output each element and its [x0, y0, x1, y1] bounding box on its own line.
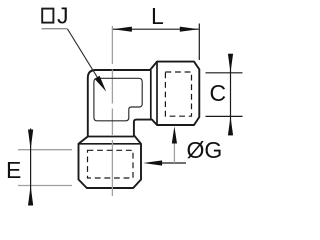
svg-text:C: C [210, 80, 227, 106]
L dimension line [113, 28, 199, 30]
E bottom extension line [18, 185, 72, 187]
L right arrow [180, 27, 199, 32]
J leader arrowhead [95, 76, 107, 92]
E top extension line [18, 149, 72, 151]
svg-text:ØG: ØG [187, 137, 223, 163]
square symbol of J label [42, 9, 53, 23]
inner cutout (stepped rounded contour) [94, 78, 142, 121]
centerline of bottom port (vertical axis, also L left extension) [111, 26, 113, 196]
E top arrow [28, 130, 33, 150]
nut face line (right hex left edge) [156, 62, 158, 125]
right port hidden thread (dashed rectangle) [165, 72, 191, 116]
svg-text:L: L [151, 3, 164, 29]
E bottom arrow [28, 186, 33, 206]
block right face line [150, 70, 152, 120]
J underline [42, 28, 68, 30]
svg-text:E: E [6, 157, 21, 183]
C top arrow [228, 54, 233, 73]
L right extension line [198, 24, 200, 61]
C bottom extension line [206, 115, 243, 117]
svg-text:J: J [57, 3, 69, 29]
C dimension line [230, 54, 232, 136]
OG vertical gray shaft [173, 142, 175, 163]
bottom hex top edge [79, 143, 142, 145]
elbow body outer outline [79, 62, 200, 188]
J leader line [68, 29, 101, 83]
C top extension line [206, 72, 243, 74]
OG vertical arrow [172, 126, 177, 143]
bottom port hidden thread (dashed rectangle) [88, 150, 134, 178]
OG leader horizontal arrow [161, 162, 186, 164]
E dimension line [30, 129, 32, 206]
L left arrow [113, 27, 132, 32]
block bottom face line [88, 136, 134, 138]
C bottom arrow [228, 116, 233, 135]
